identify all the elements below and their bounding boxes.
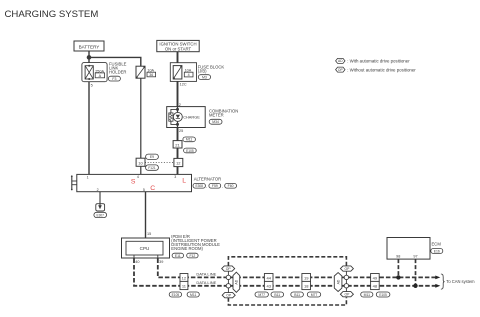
connector M11 (183, 137, 196, 142)
svg-text:ALTERNATOR: ALTERNATOR (194, 176, 221, 181)
svg-text:2: 2 (97, 188, 99, 192)
node twist2 lower (344, 284, 348, 288)
charge lamp (173, 112, 182, 121)
wire connector 10 to alternator pin 4 (140, 166, 142, 174)
node meter bottom junction (176, 123, 179, 126)
svg-text:DATA LINE: DATA LINE (196, 280, 216, 285)
svg-text:HOLDER: HOLDER (109, 69, 126, 74)
option hexagon OP top right (340, 266, 353, 271)
connector F3 (108, 76, 120, 81)
wire ECM pin 98 drop (397, 259, 399, 277)
svg-text:40: 40 (135, 260, 139, 264)
terminal symbol (71, 176, 73, 189)
alternator (71, 174, 192, 192)
svg-text:4: 4 (188, 73, 190, 77)
IPDM E/R (122, 238, 170, 258)
twist 2 link line (345, 271, 347, 292)
svg-text:: Without automatic drive posi: : Without automatic drive positioner (347, 67, 416, 72)
connector F12 (187, 253, 198, 258)
svg-text:E105: E105 (172, 293, 180, 297)
wire ignition switch to fuse block (177, 52, 179, 63)
connector E105 CAN right (376, 292, 390, 297)
node twist2 upper (344, 275, 348, 279)
connector M3 (198, 75, 210, 80)
svg-text:3: 3 (174, 175, 176, 179)
brace To CAN system (441, 274, 445, 289)
svg-text:OP: OP (344, 267, 350, 271)
svg-text:OP: OP (338, 68, 344, 72)
svg-text:M11: M11 (364, 293, 370, 297)
wire fuse 36 to connector 10 (140, 78, 142, 158)
wire shield bypass top (228, 257, 346, 266)
legend hexagon OP (336, 67, 345, 72)
pin 18 (302, 281, 311, 289)
svg-text:12: 12 (182, 275, 187, 280)
svg-text:36: 36 (149, 73, 153, 77)
svg-text:F121: F121 (148, 166, 155, 170)
node battery junction (87, 55, 92, 60)
arrow CAN-L to CAN system (435, 284, 440, 288)
svg-text:,: , (222, 184, 223, 188)
resistor branch (171, 109, 178, 113)
node twist1 upper (226, 275, 230, 279)
wire meter to connector 21 (177, 128, 179, 141)
wire alternator C to IPDM pin 15 (145, 192, 147, 242)
connector M77 mid left (255, 292, 268, 297)
node ECM CAN-H junction (396, 275, 400, 279)
label FUSE BLOCK (J/B) (198, 64, 225, 73)
svg-text:To CAN system: To CAN system (446, 279, 475, 284)
svg-text:M11: M11 (186, 138, 192, 142)
connector F121 (146, 165, 159, 170)
svg-text:S: S (131, 178, 136, 185)
connector E16 (431, 249, 443, 254)
svg-text:19: 19 (304, 275, 309, 280)
svg-text:METER: METER (209, 112, 224, 117)
svg-text:ECM: ECM (432, 241, 442, 246)
svg-text:L: L (182, 177, 186, 184)
svg-text:B11: B11 (294, 293, 300, 297)
svg-text:ENGINE ROOM): ENGINE ROOM) (171, 246, 203, 251)
node meter top junction (176, 108, 179, 111)
svg-text:12: 12 (176, 161, 181, 166)
connector M77 mid right (307, 292, 320, 297)
connector M11 CAN left (187, 292, 199, 297)
svg-text:49: 49 (373, 275, 378, 280)
pin 43 (264, 281, 273, 289)
fuse 10A 36 (136, 66, 156, 78)
ECM (387, 238, 430, 260)
wire junction to fuse 36 (89, 57, 141, 66)
wire shield bypass bottom (228, 297, 346, 305)
svg-text:E11: E11 (175, 254, 181, 258)
ignition switch (157, 40, 199, 51)
svg-text:10A: 10A (185, 68, 192, 72)
twist 1 link line (227, 271, 229, 292)
svg-text:39: 39 (159, 260, 163, 264)
pin 12 CAN (180, 274, 188, 282)
svg-text:E16: E16 (434, 249, 440, 253)
svg-text:21: 21 (175, 142, 180, 147)
svg-text:C: C (150, 185, 155, 192)
node ECM CAN-L junction (413, 284, 417, 288)
svg-text:12C: 12C (180, 82, 187, 86)
wire connector 21 to connector 12 (177, 148, 179, 158)
pin 48 (371, 281, 380, 289)
connector M34 (209, 119, 222, 124)
wire connector 12 to alternator pin 3 (177, 167, 179, 175)
connector E9 (146, 154, 159, 159)
svg-text:97: 97 (413, 255, 417, 259)
arrow CAN-H to CAN system (435, 276, 440, 280)
svg-text:98: 98 (396, 255, 400, 259)
svg-text:ON or START: ON or START (165, 46, 192, 51)
connector F60 (225, 183, 237, 188)
svg-text:E105: E105 (379, 293, 387, 297)
connector E11 (172, 253, 183, 258)
wire CAN-H from pin 39 (158, 259, 436, 278)
svg-text:DATA LINE: DATA LINE (196, 272, 216, 277)
label IPDM E/R (171, 234, 220, 251)
svg-text:OP: OP (226, 294, 232, 298)
wire pair link dotted (145, 161, 174, 163)
wire CPU pin 39 stub (157, 255, 159, 258)
svg-text:1: 1 (87, 176, 89, 180)
svg-text:4: 4 (137, 175, 139, 179)
svg-text:AD: AD (338, 59, 343, 63)
ground wire from pin 2 (96, 192, 105, 211)
svg-text:M77: M77 (258, 293, 265, 297)
connector E105 CAN left (169, 292, 181, 297)
svg-text:10: 10 (138, 160, 143, 165)
pin 19 (302, 274, 311, 282)
label COMBINATION METER (209, 108, 238, 117)
svg-text:AD: AD (235, 279, 239, 284)
option hexagon AD twist2 (334, 273, 342, 292)
pin 44 (264, 274, 273, 282)
svg-text:5: 5 (91, 83, 93, 87)
svg-text:E105: E105 (186, 149, 194, 153)
battery (74, 41, 104, 51)
wire battery to junction (88, 51, 90, 63)
svg-text:(J/B): (J/B) (198, 68, 207, 73)
svg-text:BATTERY: BATTERY (79, 44, 100, 49)
pin 12 (174, 158, 183, 166)
svg-text:E308: E308 (195, 184, 203, 188)
resistor (169, 113, 173, 121)
fusible link holder F3 (82, 63, 107, 82)
svg-text:48: 48 (373, 284, 378, 289)
pin 21 (173, 141, 182, 148)
connector M11 CAN right (361, 292, 373, 297)
svg-text:OP: OP (344, 293, 350, 297)
fuse block J/B with fuse 10A 4 (170, 63, 196, 82)
connector B11 mid left (271, 292, 284, 297)
connector E308 (193, 183, 207, 188)
svg-text:43: 43 (266, 284, 271, 289)
wire ECM pin 97 drop (415, 259, 417, 286)
wire inside meter (177, 107, 179, 113)
svg-text:AD: AD (336, 279, 340, 284)
pin 10 (136, 158, 145, 166)
label FUSIBLE LINK HOLDER (109, 62, 127, 75)
svg-text:10A: 10A (147, 68, 154, 72)
connector F59 (209, 183, 223, 188)
wire fuse block to combination meter pin 2 (177, 81, 179, 106)
option hexagon OP top left (222, 266, 235, 271)
svg-text:M3: M3 (202, 75, 207, 79)
legend hexagon AD (336, 58, 345, 63)
connector B11 mid right (291, 292, 304, 297)
svg-text:5: 5 (143, 188, 145, 192)
wire fusible link to alternator pin 1 (88, 82, 90, 175)
combination meter M34 (167, 107, 206, 128)
CPU U1 (126, 241, 163, 255)
option hexagon OP bottom right (340, 292, 353, 297)
option hexagon OP bottom left (222, 293, 235, 298)
pin 49 (371, 274, 380, 282)
svg-text:25: 25 (179, 129, 183, 133)
svg-text:F3: F3 (112, 77, 116, 81)
svg-text:15: 15 (147, 232, 151, 236)
svg-text:44: 44 (266, 275, 271, 280)
connector E105 (184, 148, 197, 153)
svg-text:E9: E9 (150, 155, 154, 159)
svg-text:OP: OP (226, 267, 232, 271)
node twist1 lower (226, 284, 230, 288)
pin 11 CAN (180, 281, 188, 289)
svg-text:,: , (206, 184, 207, 188)
svg-text:CHARGING SYSTEM: CHARGING SYSTEM (5, 9, 99, 20)
svg-text:: With automatic drive positio: : With automatic drive positioner (347, 59, 410, 64)
svg-text:M34: M34 (212, 120, 219, 124)
svg-text:E307: E307 (96, 213, 104, 217)
svg-text:M11: M11 (190, 293, 196, 297)
svg-text:F60: F60 (228, 184, 234, 188)
connector E307 (94, 212, 107, 217)
option hexagon AD twist1 (233, 272, 240, 292)
svg-text:18: 18 (304, 284, 309, 289)
svg-text:M77: M77 (311, 293, 318, 297)
wire CAN-L from pin 40 (134, 259, 436, 286)
svg-text:F12: F12 (189, 254, 195, 258)
svg-text:B11: B11 (274, 293, 280, 297)
svg-text:CPU: CPU (140, 246, 150, 251)
wire CPU pin 40 stub (133, 255, 135, 258)
svg-text:F59: F59 (212, 184, 218, 188)
svg-text:CHARGE: CHARGE (183, 114, 200, 119)
